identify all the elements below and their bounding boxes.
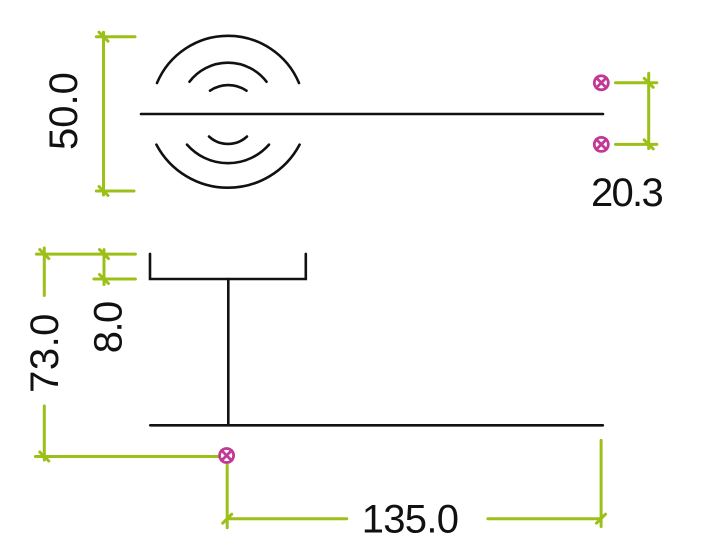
dim 20.3 leader bottom bbox=[616, 143, 657, 146]
dim 8.0 extension line bottom bbox=[94, 278, 135, 281]
dim 20.3 leader top bbox=[616, 81, 657, 84]
dim 50.0 extension line top bbox=[96, 35, 135, 38]
handle stem (side view) bbox=[227, 279, 230, 425]
rose middle arc bottom bbox=[187, 145, 269, 164]
grip channel (side view) bbox=[150, 254, 306, 279]
dim 73.0 tick bottom bbox=[40, 452, 49, 461]
dim 50.0 extension line bottom bbox=[96, 190, 134, 193]
dim 20.3 tick top bbox=[644, 78, 653, 87]
fixing symbol (side view) bbox=[220, 449, 234, 463]
dim 135.0 dimension line right segment bbox=[488, 517, 601, 520]
dim 73.0 dimension line upper segment bbox=[43, 248, 46, 296]
svg-text:20.3: 20.3 bbox=[591, 171, 663, 215]
dim 8.0 dimension line bbox=[103, 250, 106, 285]
dim 73.0 extension line top bbox=[36, 253, 135, 256]
lever bar (side view) bbox=[150, 424, 603, 427]
dim 135.0 extension line left bbox=[226, 465, 229, 528]
rose outer arc bottom bbox=[156, 145, 299, 188]
fixing symbol bottom (end view) bbox=[594, 137, 608, 151]
svg-text:50.0: 50.0 bbox=[42, 72, 86, 150]
dim 8.0 tick top bbox=[100, 250, 109, 259]
rose middle arc top bbox=[190, 63, 267, 82]
dim 135.0 tick right bbox=[597, 514, 606, 523]
lever centerline (end view) bbox=[141, 113, 603, 116]
svg-text:73.0: 73.0 bbox=[23, 313, 67, 393]
dim 8.0 tick bottom bbox=[100, 275, 109, 284]
dim 73.0 dimension line lower segment bbox=[43, 406, 46, 460]
dim 50.0 dimension line bbox=[102, 32, 105, 195]
dim 73.0 tick top bbox=[40, 250, 49, 259]
rose inner arc top bbox=[210, 85, 247, 91]
dim 50.0 tick bottom bbox=[99, 187, 108, 196]
fixing symbol top (end view) bbox=[594, 76, 608, 90]
svg-text:8.0: 8.0 bbox=[87, 302, 131, 353]
rose outer arc top bbox=[157, 36, 299, 83]
dim 73.0 extension line bottom bbox=[35, 455, 218, 458]
dim 135.0 dimension line left segment bbox=[227, 517, 347, 520]
dim 135.0 extension line right bbox=[600, 440, 603, 526]
dim 20.3 tick bottom bbox=[644, 140, 653, 149]
dim 135.0 tick left bbox=[223, 514, 232, 523]
svg-text:135.0: 135.0 bbox=[362, 497, 459, 541]
dim 20.3 dimension line bbox=[647, 73, 650, 148]
rose inner arc bottom bbox=[209, 137, 247, 144]
dim 50.0 tick top bbox=[99, 32, 108, 41]
